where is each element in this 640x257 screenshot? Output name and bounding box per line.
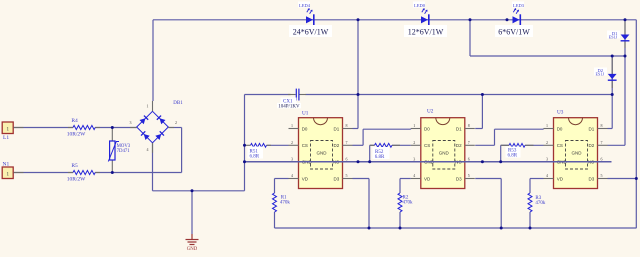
svg-text:VD: VD xyxy=(557,176,564,181)
svg-text:4: 4 xyxy=(147,147,149,152)
wire ground stem xyxy=(191,191,193,234)
junction CX1 net / U2 pin8 riser xyxy=(481,93,484,96)
resistor R3 xyxy=(528,193,546,212)
svg-text:D3: D3 xyxy=(456,176,462,181)
wire U2 pin7 to U3 pin1 xyxy=(475,129,543,146)
svg-text:2: 2 xyxy=(291,140,293,145)
svg-text:6: 6 xyxy=(601,156,603,161)
wire R52 feed xyxy=(370,145,411,162)
junction N row / MOV3 bottom xyxy=(111,171,114,174)
svg-text:D0: D0 xyxy=(557,126,563,131)
svg-text:VD: VD xyxy=(302,176,309,181)
wire D2 branch vertical xyxy=(608,56,613,129)
svg-text:CS: CS xyxy=(302,143,308,148)
connector L1 xyxy=(2,122,23,141)
resistor R5 xyxy=(67,163,100,183)
svg-text:2: 2 xyxy=(546,140,548,145)
junction bottom rail / U2 pin5 xyxy=(500,227,503,230)
junction top rail / LED3 anode xyxy=(506,18,509,21)
svg-text:D2: D2 xyxy=(589,143,595,148)
resistor R51 xyxy=(245,143,272,159)
wire GND bus xyxy=(245,161,612,163)
svg-text:3: 3 xyxy=(291,156,293,161)
svg-text:4: 4 xyxy=(546,173,548,178)
diode bridge DB1 xyxy=(130,101,184,153)
svg-text:470k: 470k xyxy=(403,200,414,205)
connector N1 xyxy=(2,162,23,179)
IC U1 xyxy=(289,111,353,189)
wire U1 pin8 riser xyxy=(353,20,359,129)
wire GND bus overlay xyxy=(245,161,612,163)
svg-text:6.8R: 6.8R xyxy=(250,155,260,160)
svg-text:3: 3 xyxy=(546,156,548,161)
junction y56 / D1 cathode xyxy=(624,55,627,58)
wire R51 feed xyxy=(267,144,289,146)
svg-text:U3: U3 xyxy=(557,110,564,116)
IC U3 xyxy=(544,110,608,189)
svg-text:4: 4 xyxy=(413,173,415,178)
svg-text:7: 7 xyxy=(346,140,348,145)
junction GND bus A xyxy=(357,160,360,163)
svg-text:LED3: LED3 xyxy=(513,3,525,8)
svg-text:8: 8 xyxy=(346,123,348,128)
svg-text:ES1J: ES1J xyxy=(596,72,605,77)
wire CX1 riser xyxy=(244,95,246,191)
wire U3 pin5 to right edge xyxy=(608,178,637,180)
junction bottom-left rail / ground xyxy=(191,189,194,192)
diode D2 xyxy=(594,58,617,88)
wire top rail xyxy=(153,20,636,101)
svg-text:CS: CS xyxy=(557,143,563,148)
wire N row xyxy=(14,172,182,174)
wire U2 pin8 riser xyxy=(475,95,482,129)
wire CX1 horizontal xyxy=(245,94,613,96)
wire U3 pin4 to R3 xyxy=(530,179,544,229)
capacitor CX1 xyxy=(277,89,306,110)
svg-text:6.8R: 6.8R xyxy=(508,154,518,159)
svg-text:6: 6 xyxy=(468,156,470,161)
svg-text:ES1J: ES1J xyxy=(609,35,618,40)
ground xyxy=(186,234,199,252)
svg-text:104P/1KV: 104P/1KV xyxy=(278,104,300,109)
resistor R53 xyxy=(501,143,534,158)
svg-text:D0: D0 xyxy=(424,126,430,131)
LED LED3 xyxy=(495,2,533,38)
junction bottom rail / U1 pin5 xyxy=(368,227,371,230)
junction L row / MOV3 top xyxy=(111,126,114,129)
junction bottom rail / R3 xyxy=(529,227,532,230)
svg-text:CS: CS xyxy=(424,143,430,148)
svg-text:10R/2W: 10R/2W xyxy=(67,132,86,138)
svg-text:1: 1 xyxy=(413,123,415,128)
svg-text:D3: D3 xyxy=(334,176,340,181)
svg-text:GND: GND xyxy=(572,151,583,156)
wire bottom rail xyxy=(275,227,637,229)
svg-text:24*6V/1W: 24*6V/1W xyxy=(293,28,329,37)
wire right edge drop xyxy=(635,20,637,228)
svg-text:3: 3 xyxy=(413,156,415,161)
svg-text:7D471: 7D471 xyxy=(117,149,131,154)
wire U1 pin7 to U2 pin1 xyxy=(353,129,411,146)
svg-text:4: 4 xyxy=(291,173,293,178)
svg-text:1: 1 xyxy=(6,126,9,132)
resistor R1 xyxy=(273,193,291,212)
svg-text:D2: D2 xyxy=(456,143,462,148)
junction GND bus / R52 xyxy=(368,160,371,163)
svg-text:LED4: LED4 xyxy=(299,3,311,8)
svg-text:GND: GND xyxy=(317,151,328,156)
svg-text:GND: GND xyxy=(439,151,450,156)
svg-text:470k: 470k xyxy=(535,201,546,206)
wire U2 pin5 drop xyxy=(475,179,501,229)
svg-text:5: 5 xyxy=(601,173,603,178)
svg-text:1: 1 xyxy=(546,123,548,128)
svg-text:D1: D1 xyxy=(334,126,340,131)
junction GND bus B xyxy=(481,160,484,163)
wire U2 pin4 to R2 xyxy=(400,179,411,229)
wire U1 pin5 drop xyxy=(353,179,370,229)
diode D1 xyxy=(607,22,629,49)
svg-text:N1: N1 xyxy=(3,162,10,168)
junction bottom rail / R2 xyxy=(399,227,402,230)
svg-text:R5: R5 xyxy=(71,163,78,169)
junction riser / GND bus xyxy=(243,160,246,163)
junction top rail / D-branch drop xyxy=(469,18,472,21)
wire bridge bottom drop xyxy=(152,143,154,191)
svg-text:10R/2W: 10R/2W xyxy=(67,177,86,183)
svg-text:D2: D2 xyxy=(334,143,340,148)
junction CX1 net / D2 cathode xyxy=(611,93,614,96)
svg-text:6.8R: 6.8R xyxy=(375,155,385,160)
resistor R4 xyxy=(67,118,100,138)
resistor R2 xyxy=(398,193,413,212)
svg-text:D1: D1 xyxy=(456,126,462,131)
svg-text:2: 2 xyxy=(175,120,177,125)
svg-text:D0: D0 xyxy=(302,126,308,131)
svg-text:DB1: DB1 xyxy=(173,101,183,106)
junction top rail / D1 anode xyxy=(624,18,627,21)
svg-text:470k: 470k xyxy=(280,200,291,205)
svg-text:12*6V/1W: 12*6V/1W xyxy=(408,28,444,37)
svg-text:6*6V/1W: 6*6V/1W xyxy=(498,28,530,37)
junction y56 / D2 anode xyxy=(611,55,614,58)
junction top rail / U1 pin8 riser xyxy=(357,18,360,21)
wire U1 pin4 to R1 xyxy=(275,179,289,229)
wire bridge right loop xyxy=(168,128,181,173)
svg-text:6: 6 xyxy=(346,156,348,161)
svg-text:8: 8 xyxy=(468,123,470,128)
svg-text:U2: U2 xyxy=(427,109,434,115)
svg-text:1: 1 xyxy=(147,104,149,109)
svg-text:LED0: LED0 xyxy=(414,3,426,8)
svg-text:GND: GND xyxy=(187,247,198,252)
resistor R52 xyxy=(370,143,400,160)
LED LED0 xyxy=(404,2,447,38)
wire R53 feed xyxy=(501,145,544,162)
svg-text:L1: L1 xyxy=(3,135,9,141)
svg-text:3: 3 xyxy=(130,120,132,125)
junction right edge / U3 pin5 xyxy=(635,177,638,180)
IC U2 xyxy=(411,109,475,189)
svg-text:VD: VD xyxy=(424,176,431,181)
svg-text:D3: D3 xyxy=(589,176,595,181)
svg-text:2: 2 xyxy=(413,140,415,145)
svg-text:1: 1 xyxy=(291,123,293,128)
wire D1 branch vertical xyxy=(608,21,626,145)
svg-text:R4: R4 xyxy=(71,118,78,124)
junction CX1 net / U1 pin8 riser xyxy=(357,93,360,96)
svg-text:8: 8 xyxy=(601,123,603,128)
svg-text:7: 7 xyxy=(468,140,470,145)
wire bottom-left rail xyxy=(153,190,245,192)
svg-text:U1: U1 xyxy=(302,111,309,117)
junction riser / R51 xyxy=(243,144,246,147)
svg-text:5: 5 xyxy=(468,173,470,178)
wire y56 horizontal xyxy=(470,20,625,56)
svg-text:D1: D1 xyxy=(589,126,595,131)
svg-text:1: 1 xyxy=(6,171,9,177)
junction GND bus / R53 xyxy=(499,160,502,163)
svg-text:7: 7 xyxy=(601,140,603,145)
LED LED4 xyxy=(289,2,332,38)
wire L row xyxy=(14,127,137,129)
svg-text:5: 5 xyxy=(346,173,348,178)
varistor MOV3 xyxy=(108,128,130,173)
